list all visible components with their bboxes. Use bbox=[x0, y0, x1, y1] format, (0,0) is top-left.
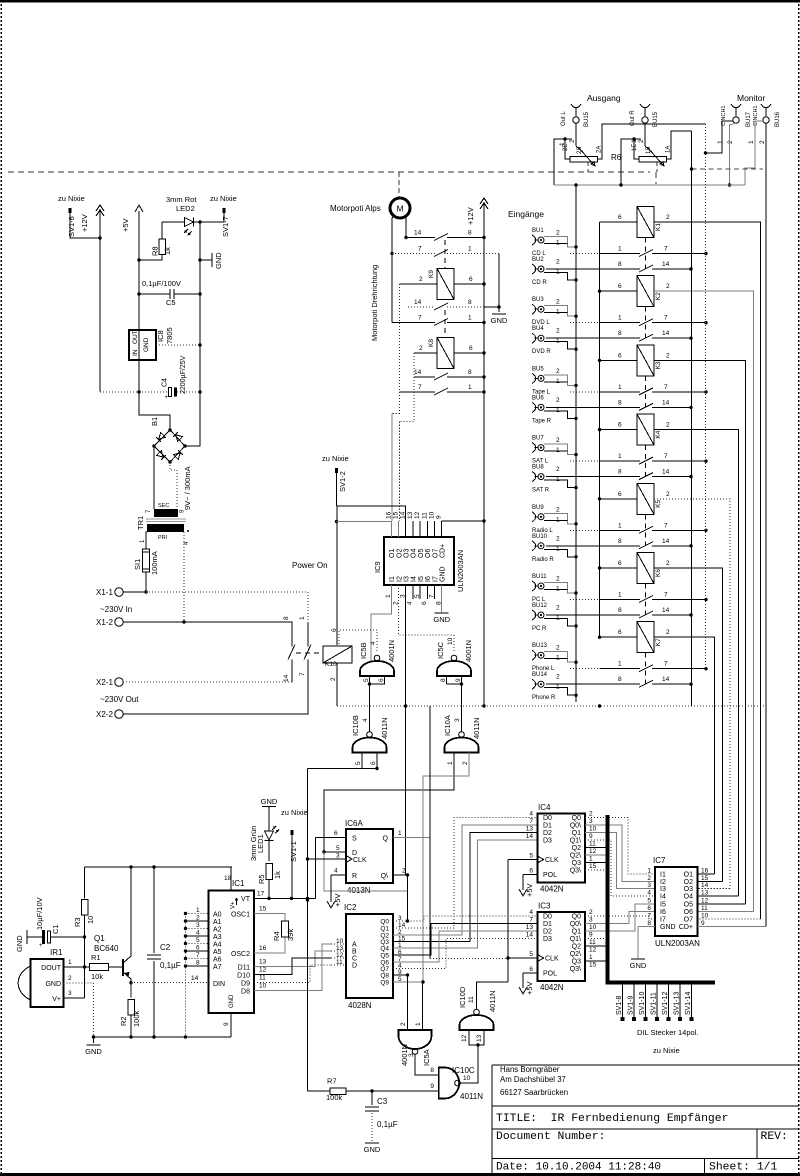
svg-text:Phone R: Phone R bbox=[532, 695, 556, 701]
svg-text:K6: K6 bbox=[655, 569, 662, 577]
svg-text:X2-2: X2-2 bbox=[96, 710, 113, 719]
wires BU12 bbox=[544, 619, 576, 627]
svg-text:2: 2 bbox=[419, 276, 423, 283]
svg-text:K5: K5 bbox=[655, 499, 662, 507]
svg-text:9: 9 bbox=[589, 833, 593, 840]
svg-text:BU14: BU14 bbox=[532, 672, 548, 678]
svg-text:SV1-13: SV1-13 bbox=[674, 992, 681, 1015]
svg-text:IC5C: IC5C bbox=[436, 641, 445, 659]
svg-text:14: 14 bbox=[662, 607, 670, 614]
svg-text:IC8: IC8 bbox=[156, 330, 165, 342]
relay K4 pin 6 wire bbox=[600, 429, 638, 431]
relay K6 pin 6 wire bbox=[600, 567, 638, 569]
svg-text:8: 8 bbox=[618, 676, 622, 683]
svg-text:14: 14 bbox=[662, 538, 670, 545]
svg-text:O5: O5 bbox=[684, 901, 693, 908]
svg-text:GND: GND bbox=[433, 615, 450, 624]
IC2 output wires bbox=[393, 920, 408, 922]
svg-text:2: 2 bbox=[666, 560, 670, 567]
svg-text:11: 11 bbox=[701, 905, 708, 912]
wire Q1 emitter to R2 bbox=[129, 981, 132, 984]
IC9 pin 9 CD+ bbox=[441, 521, 443, 537]
svg-text:zu Nixie: zu Nixie bbox=[58, 194, 85, 203]
svg-text:5: 5 bbox=[529, 951, 533, 958]
svg-text:7: 7 bbox=[529, 818, 533, 825]
resistor R2 100k bbox=[128, 999, 135, 1015]
svg-text:2: 2 bbox=[759, 140, 766, 144]
svg-text:BU13: BU13 bbox=[532, 643, 548, 649]
wire Q1 collector bbox=[130, 867, 132, 940]
wires BU3 bbox=[544, 306, 576, 317]
wires BU6 bbox=[544, 411, 576, 419]
relay K2 pin 2 wire bbox=[654, 291, 753, 911]
svg-text:I1: I1 bbox=[389, 576, 396, 582]
svg-text:1: 1 bbox=[468, 315, 472, 322]
svg-text:SI1: SI1 bbox=[133, 559, 142, 570]
svg-text:GND: GND bbox=[85, 1047, 102, 1056]
svg-text:D0: D0 bbox=[543, 815, 552, 822]
svg-text:10µF/10V: 10µF/10V bbox=[35, 897, 44, 930]
IC9 pin3 wire bbox=[405, 585, 407, 875]
wire poti b A bbox=[667, 131, 692, 159]
svg-text:DIN: DIN bbox=[213, 981, 225, 988]
svg-text:R5: R5 bbox=[257, 874, 266, 884]
wire +5V to IC8 bbox=[138, 294, 140, 330]
svg-text:K7: K7 bbox=[655, 638, 662, 646]
svg-text:IC3: IC3 bbox=[538, 902, 551, 911]
svg-text:O1: O1 bbox=[684, 872, 693, 879]
svg-text:IC10A: IC10A bbox=[443, 715, 452, 736]
svg-text:D11: D11 bbox=[238, 965, 250, 972]
svg-text:C: C bbox=[352, 956, 357, 963]
svg-text:2: 2 bbox=[556, 437, 560, 444]
svg-text:X1-2: X1-2 bbox=[96, 618, 113, 627]
connector BU2 bbox=[532, 264, 536, 274]
svg-text:18: 18 bbox=[224, 875, 232, 882]
svg-text:D10: D10 bbox=[237, 973, 250, 980]
svg-text:8: 8 bbox=[196, 960, 200, 967]
svg-text:2: 2 bbox=[196, 915, 200, 922]
relay K5 contact 8/14 bbox=[546, 545, 640, 547]
svg-text:I3: I3 bbox=[404, 576, 411, 582]
svg-text:2: 2 bbox=[589, 811, 593, 818]
svg-text:4042N: 4042N bbox=[540, 885, 564, 894]
wire C4 to bridge bbox=[185, 392, 200, 446]
ground bbox=[200, 259, 212, 261]
svg-text:10k: 10k bbox=[91, 972, 103, 981]
svg-text:2: 2 bbox=[727, 140, 734, 144]
svg-text:2: 2 bbox=[666, 629, 670, 636]
svg-text:Tape R: Tape R bbox=[532, 418, 552, 424]
svg-text:2: 2 bbox=[556, 299, 560, 306]
svg-text:3: 3 bbox=[589, 917, 593, 924]
svg-text:SV1-11: SV1-11 bbox=[651, 992, 658, 1015]
svg-text:1: 1 bbox=[196, 907, 200, 914]
svg-text:12: 12 bbox=[259, 967, 267, 974]
svg-text:4: 4 bbox=[529, 909, 533, 916]
svg-text:0,1µF/100V: 0,1µF/100V bbox=[142, 279, 181, 288]
relay K7 pin 2 wire bbox=[654, 637, 715, 874]
svg-text:C4: C4 bbox=[162, 378, 169, 387]
relay K2 contact 8/14 bbox=[546, 337, 640, 339]
svg-text:IR1: IR1 bbox=[50, 948, 63, 957]
svg-text:14: 14 bbox=[526, 833, 534, 840]
svg-text:1: 1 bbox=[618, 384, 622, 391]
svg-text:13: 13 bbox=[526, 826, 534, 833]
svg-text:CD+: CD+ bbox=[679, 924, 693, 931]
svg-text:14: 14 bbox=[662, 469, 670, 476]
vertical net x691 bbox=[691, 131, 693, 706]
svg-text:1: 1 bbox=[717, 140, 724, 144]
svg-text:PRI: PRI bbox=[158, 535, 168, 541]
svg-text:IC2: IC2 bbox=[344, 903, 357, 912]
svg-text:14: 14 bbox=[662, 330, 670, 337]
nor gate IC5B 4001N bbox=[339, 630, 377, 651]
svg-text:1: 1 bbox=[468, 384, 472, 391]
svg-text:12: 12 bbox=[461, 1034, 468, 1042]
svg-text:6: 6 bbox=[421, 601, 428, 605]
jack BU16 CINCH1 bbox=[761, 104, 771, 108]
svg-text:6: 6 bbox=[618, 491, 622, 498]
connector BU12 bbox=[532, 610, 536, 620]
svg-text:K3: K3 bbox=[655, 361, 662, 369]
svg-text:BU6: BU6 bbox=[532, 395, 544, 401]
svg-text:Q0: Q0 bbox=[380, 919, 389, 926]
svg-text:10: 10 bbox=[463, 1075, 471, 1082]
ground C3 bbox=[365, 1142, 379, 1144]
svg-text:Out R: Out R bbox=[630, 110, 636, 126]
relay coil K2 bbox=[637, 276, 654, 307]
wire TR1 pins bbox=[146, 532, 147, 549]
wire motor pins bbox=[392, 216, 394, 323]
svg-text:4: 4 bbox=[407, 601, 414, 605]
svg-text:Q4: Q4 bbox=[380, 946, 389, 953]
svg-text:4: 4 bbox=[334, 868, 338, 875]
svg-text:6: 6 bbox=[331, 628, 338, 632]
IC3 CLK wire bbox=[508, 957, 538, 959]
svg-text:R4: R4 bbox=[272, 931, 281, 941]
svg-text:2: 2 bbox=[462, 761, 469, 765]
svg-text:15: 15 bbox=[589, 863, 597, 870]
svg-text:GND: GND bbox=[45, 981, 61, 988]
svg-text:SV1-9: SV1-9 bbox=[628, 995, 635, 1015]
svg-text:3: 3 bbox=[196, 922, 200, 929]
resistor R5 1k bbox=[266, 864, 273, 880]
ground main bbox=[93, 1037, 95, 1043]
svg-text:Q3\: Q3\ bbox=[570, 868, 581, 875]
svg-text:9: 9 bbox=[223, 1022, 230, 1026]
svg-text:2200µF/25V: 2200µF/25V bbox=[180, 355, 187, 394]
svg-text:+: + bbox=[165, 395, 169, 401]
svg-text:1: 1 bbox=[589, 954, 593, 961]
svg-text:Q: Q bbox=[383, 836, 389, 843]
svg-text:IC4: IC4 bbox=[538, 803, 551, 812]
svg-text:IC5B: IC5B bbox=[359, 642, 368, 659]
svg-text:13: 13 bbox=[259, 959, 267, 966]
svg-text:2: 2 bbox=[402, 868, 406, 875]
svg-text:0,1µF: 0,1µF bbox=[160, 961, 181, 970]
connector SV1-9 bbox=[633, 982, 635, 1017]
ground LED1 bbox=[262, 806, 276, 808]
wire IC8 IN down bbox=[139, 360, 170, 430]
svg-text:6: 6 bbox=[529, 966, 533, 973]
connector BU3 bbox=[532, 304, 536, 314]
relay coil K7 bbox=[637, 622, 654, 653]
nand gate IC10D 4011N bbox=[460, 1015, 494, 1030]
wires BU10 bbox=[544, 549, 576, 557]
svg-text:10: 10 bbox=[589, 826, 597, 833]
svg-text:A6: A6 bbox=[213, 957, 222, 964]
svg-text:K8: K8 bbox=[428, 339, 435, 347]
wire X1-2 bbox=[123, 622, 292, 623]
svg-text:8: 8 bbox=[430, 1067, 434, 1074]
svg-text:2: 2 bbox=[647, 875, 651, 882]
svg-text:A0: A0 bbox=[213, 912, 222, 919]
svg-text:7: 7 bbox=[664, 592, 668, 599]
svg-text:+5V: +5V bbox=[333, 893, 342, 907]
svg-text:I4: I4 bbox=[411, 576, 418, 582]
svg-text:V+: V+ bbox=[231, 901, 237, 909]
svg-text:12: 12 bbox=[414, 511, 421, 519]
svg-text:2: 2 bbox=[666, 422, 670, 429]
svg-text:C5: C5 bbox=[166, 298, 176, 307]
relay K5 pin 6 wire bbox=[600, 498, 638, 500]
connector SV1-8 bbox=[622, 982, 624, 1017]
svg-text:Q1: Q1 bbox=[572, 830, 581, 837]
svg-text:D2: D2 bbox=[543, 830, 552, 837]
wires to IC9 bbox=[392, 284, 399, 414]
relay coil K1 bbox=[637, 207, 654, 238]
svg-text:2: 2 bbox=[556, 328, 560, 335]
svg-text:I3: I3 bbox=[660, 886, 666, 893]
svg-text:R6: R6 bbox=[611, 153, 622, 162]
svg-text:X1-1: X1-1 bbox=[96, 588, 113, 597]
vertical net x706 dotted bbox=[705, 124, 707, 669]
svg-text:14: 14 bbox=[414, 369, 422, 376]
svg-text:6: 6 bbox=[469, 276, 473, 283]
svg-text:3: 3 bbox=[68, 990, 72, 997]
relay K6 contact 1/7 bbox=[570, 599, 576, 601]
svg-text:2: 2 bbox=[556, 506, 560, 513]
svg-text:Q\: Q\ bbox=[381, 873, 388, 880]
svg-text:2: 2 bbox=[556, 605, 560, 612]
svg-text:SV1-6: SV1-6 bbox=[67, 216, 76, 237]
svg-text:R1: R1 bbox=[91, 953, 101, 962]
svg-text:K2: K2 bbox=[655, 292, 662, 300]
svg-text:7: 7 bbox=[664, 453, 668, 460]
svg-text:2: 2 bbox=[589, 909, 593, 916]
svg-text:DOUT: DOUT bbox=[41, 965, 62, 972]
svg-text:7: 7 bbox=[196, 952, 200, 959]
svg-text:POL: POL bbox=[543, 872, 557, 879]
connector BU9 bbox=[532, 512, 536, 522]
wire IC5C to IC10A bbox=[461, 684, 463, 732]
svg-text:I7: I7 bbox=[660, 917, 666, 924]
svg-text:IC1: IC1 bbox=[232, 879, 245, 888]
bottom rail y1037 bbox=[94, 1036, 232, 1038]
svg-text:4011N: 4011N bbox=[380, 717, 389, 739]
wires BU13 bbox=[544, 652, 576, 663]
wire +12V/C4 node bbox=[100, 391, 169, 393]
svg-text:A5: A5 bbox=[213, 949, 222, 956]
svg-text:39k: 39k bbox=[286, 929, 295, 941]
svg-text:+: + bbox=[39, 943, 43, 949]
connector BU7 bbox=[532, 443, 536, 453]
svg-text:I4: I4 bbox=[660, 894, 666, 901]
svg-text:4001N: 4001N bbox=[387, 640, 396, 662]
+5V supply arrow bbox=[135, 205, 143, 212]
relay coil K9 bbox=[437, 269, 454, 300]
connector SV1-11 bbox=[656, 982, 658, 1017]
svg-text:9: 9 bbox=[701, 920, 705, 927]
connector BU5 bbox=[532, 373, 536, 383]
svg-text:+5V: +5V bbox=[525, 883, 534, 897]
resistor R4 39k bbox=[282, 921, 289, 937]
relay K6 contact 8/14 bbox=[546, 614, 640, 616]
svg-text:GND: GND bbox=[491, 316, 508, 325]
svg-text:1: 1 bbox=[618, 453, 622, 460]
svg-text:7: 7 bbox=[664, 384, 668, 391]
wires BU2 bbox=[544, 273, 576, 281]
svg-text:10: 10 bbox=[259, 983, 267, 990]
svg-text:Q9: Q9 bbox=[380, 980, 389, 987]
relay coil K8 bbox=[437, 338, 454, 369]
svg-text:5: 5 bbox=[529, 853, 533, 860]
svg-text:BU8: BU8 bbox=[532, 465, 544, 471]
svg-text:100mA: 100mA bbox=[150, 551, 159, 575]
relay K4 mech link bbox=[645, 445, 647, 477]
svg-text:8: 8 bbox=[618, 538, 622, 545]
wire IC5B to IC10B bbox=[369, 684, 371, 732]
svg-text:BU11: BU11 bbox=[532, 574, 547, 580]
relay K6 mech link bbox=[645, 584, 647, 616]
svg-text:Ausgang: Ausgang bbox=[587, 93, 621, 103]
relay coil K10 bbox=[336, 506, 338, 645]
svg-text:3: 3 bbox=[647, 882, 651, 889]
svg-text:3mm Rot: 3mm Rot bbox=[166, 195, 197, 204]
svg-text:4: 4 bbox=[529, 811, 533, 818]
svg-text:BU4: BU4 bbox=[532, 326, 544, 332]
svg-text:OSC2: OSC2 bbox=[231, 951, 250, 958]
svg-text:I7: I7 bbox=[432, 576, 439, 582]
svg-text:5: 5 bbox=[336, 845, 340, 852]
svg-text:IC7: IC7 bbox=[653, 856, 666, 865]
wire poti b E bbox=[634, 139, 641, 159]
svg-text:11: 11 bbox=[589, 841, 596, 848]
svg-text:BU3: BU3 bbox=[532, 297, 544, 303]
IC9 pin 14 O3 bbox=[405, 521, 407, 537]
svg-text:BU5: BU5 bbox=[532, 366, 544, 372]
svg-text:2: 2 bbox=[419, 345, 423, 352]
resistor R1 10k bbox=[90, 964, 109, 971]
+5V arrow IC6A bbox=[327, 901, 335, 908]
IC9 ULN2003AN driver bbox=[384, 537, 454, 585]
connector BU14 bbox=[532, 679, 536, 689]
svg-text:7: 7 bbox=[664, 661, 668, 668]
resistor R8 1k bbox=[161, 222, 163, 239]
svg-text:IC10B: IC10B bbox=[351, 715, 360, 736]
svg-text:9: 9 bbox=[430, 1083, 434, 1090]
svg-text:I5: I5 bbox=[418, 576, 425, 582]
svg-text:K1: K1 bbox=[655, 223, 662, 231]
title block bbox=[492, 1065, 799, 1174]
svg-text:1: 1 bbox=[618, 661, 622, 668]
relay K2 contact 1/7 bbox=[570, 322, 576, 324]
svg-text:11: 11 bbox=[259, 975, 266, 982]
IC7 GND bbox=[638, 925, 655, 927]
IC10D output to CLK net bbox=[477, 982, 509, 1009]
relay coil K6 bbox=[637, 553, 654, 584]
svg-text:Motorpoti Alps: Motorpoti Alps bbox=[330, 204, 381, 213]
svg-text:SAT R: SAT R bbox=[532, 488, 550, 494]
svg-text:10: 10 bbox=[701, 913, 709, 920]
svg-text:2: 2 bbox=[68, 975, 72, 982]
svg-text:K4: K4 bbox=[655, 430, 662, 438]
relay K4 contact 8/14 bbox=[546, 476, 640, 478]
svg-text:zu Nixie: zu Nixie bbox=[210, 194, 237, 203]
svg-text:Q2: Q2 bbox=[572, 944, 581, 951]
svg-text:16: 16 bbox=[701, 868, 709, 875]
relay K7 contact 1/7 bbox=[570, 668, 576, 670]
IC9 pin 15 O2 bbox=[398, 521, 400, 537]
nand gate IC10C 4011N bbox=[439, 1068, 460, 1099]
net VT vertical bbox=[307, 769, 309, 1092]
svg-text:1: 1 bbox=[299, 616, 306, 620]
gray bus y185 bbox=[554, 184, 745, 186]
relay K3 pin 6 wire bbox=[600, 359, 638, 361]
svg-text:1: 1 bbox=[618, 246, 622, 253]
svg-text:14: 14 bbox=[414, 230, 422, 237]
svg-text:15: 15 bbox=[589, 962, 597, 969]
svg-text:CLK: CLK bbox=[545, 956, 559, 963]
svg-text:Q1: Q1 bbox=[94, 934, 105, 943]
svg-text:VT: VT bbox=[241, 896, 251, 903]
svg-text:I2: I2 bbox=[396, 576, 403, 582]
svg-text:7: 7 bbox=[664, 522, 668, 529]
svg-text:7: 7 bbox=[418, 315, 422, 322]
svg-text:Date: 10.10.2004 11:28:40: Date: 10.10.2004 11:28:40 bbox=[496, 1162, 661, 1174]
svg-text:SV1-10: SV1-10 bbox=[639, 992, 646, 1015]
relay K4 contact 1/7 bbox=[570, 460, 576, 462]
relay K1 contact 8/14 bbox=[546, 268, 640, 270]
svg-text:14: 14 bbox=[701, 882, 709, 889]
svg-text:7: 7 bbox=[664, 246, 668, 253]
svg-text:11: 11 bbox=[468, 996, 475, 1003]
svg-text:15: 15 bbox=[259, 906, 267, 913]
svg-text:O2: O2 bbox=[684, 879, 693, 886]
svg-text:9: 9 bbox=[436, 515, 443, 519]
svg-text:K9: K9 bbox=[428, 270, 435, 278]
wire +5V rail down bbox=[138, 211, 140, 392]
svg-text:Monitor: Monitor bbox=[737, 93, 766, 103]
svg-text:POL: POL bbox=[543, 971, 557, 978]
svg-text:OSC1: OSC1 bbox=[231, 912, 250, 919]
IC9 pin 10 O7 bbox=[434, 521, 436, 537]
jack BU17 CINCH1 bbox=[731, 104, 741, 108]
svg-text:1k: 1k bbox=[273, 871, 282, 879]
svg-text:9: 9 bbox=[455, 678, 462, 682]
svg-text:1k: 1k bbox=[163, 247, 172, 255]
svg-text:PC R: PC R bbox=[532, 626, 547, 632]
svg-text:Q5: Q5 bbox=[380, 953, 389, 960]
Q1 symbol bbox=[122, 959, 124, 976]
svg-text:O4: O4 bbox=[411, 549, 418, 558]
svg-text:~230V In: ~230V In bbox=[100, 605, 132, 614]
IC9 pin 12 O5 bbox=[419, 521, 421, 537]
svg-text:14: 14 bbox=[526, 932, 534, 939]
svg-text:GND: GND bbox=[214, 252, 223, 269]
IC5C inputs bbox=[446, 676, 448, 684]
